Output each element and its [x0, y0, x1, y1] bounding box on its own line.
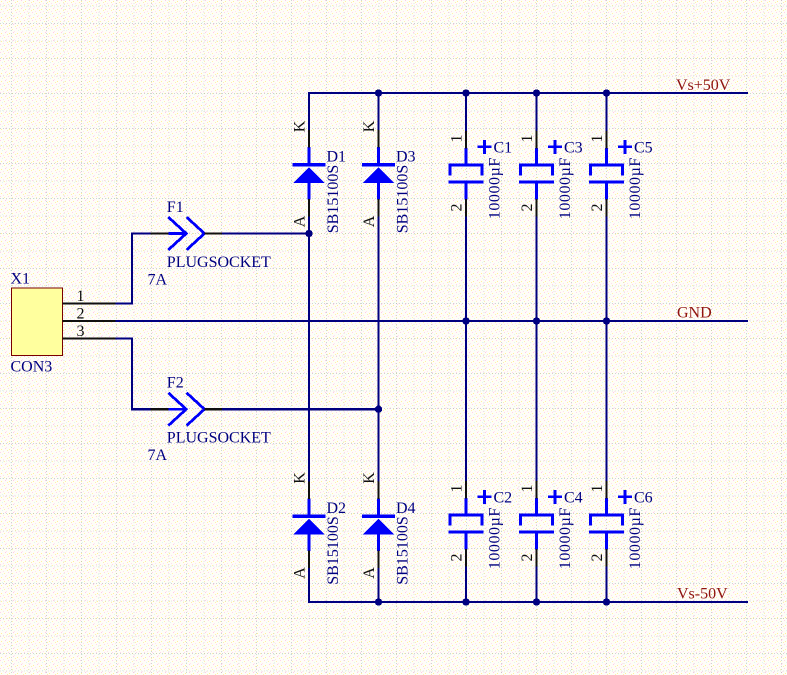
C1 polarity mark +: [478, 140, 492, 154]
polarized capacitor C2 (10000µF): [449, 498, 484, 549]
polarized capacitor C4 (10000µF): [519, 498, 554, 549]
junction GND / C1-C2: [462, 317, 469, 324]
junction top rail / C3: [533, 89, 540, 96]
C6 pin 1 lead: [605, 481, 607, 498]
D4 cathode pin (K): [377, 482, 379, 499]
C3 polarity mark +: [548, 140, 562, 154]
X1 pin 3: [63, 337, 116, 339]
svg-text:3: 3: [77, 323, 85, 340]
junction F1 / D1-D2 column: [305, 230, 312, 237]
svg-text:1: 1: [589, 485, 606, 493]
wire: pin1 to F1 (horizontal + vertical riser): [116, 232, 151, 304]
junction bottom rail / D4: [375, 598, 382, 605]
C5 pin 2 lead: [605, 199, 607, 217]
wire: Vs+50V top rail: [308, 92, 748, 94]
svg-text:10000µF: 10000µF: [487, 157, 504, 219]
C4 polarity mark +: [548, 490, 562, 504]
svg-text:PLUGSOCKET: PLUGSOCKET: [167, 254, 271, 271]
F1 pin 2 lead: [204, 232, 222, 234]
svg-text:7A: 7A: [148, 447, 168, 464]
svg-text:D4: D4: [396, 500, 416, 517]
polarized capacitor C5 (10000µF): [589, 148, 624, 199]
svg-text:D3: D3: [396, 149, 416, 166]
wire: GND net from pin2 to right edge: [116, 320, 748, 322]
F2 pin 2 lead: [204, 408, 222, 410]
svg-text:A: A: [361, 215, 378, 227]
svg-text:CON3: CON3: [11, 359, 53, 376]
fuse F2: [168, 393, 204, 426]
wire: Vs-50V bottom rail: [308, 601, 748, 603]
svg-text:2: 2: [449, 204, 466, 212]
junction GND / C3-C4: [533, 317, 540, 324]
C2 polarity mark +: [478, 490, 492, 504]
svg-text:C6: C6: [634, 489, 653, 506]
D2 anode pin (A): [308, 551, 310, 568]
junction GND / C5-C6: [603, 317, 610, 324]
wire: D1/D2 column segments: [308, 92, 310, 603]
svg-text:C4: C4: [564, 489, 583, 506]
svg-text:1: 1: [589, 135, 606, 143]
C5 pin 1 lead: [605, 131, 607, 148]
C6 polarity mark +: [618, 490, 632, 504]
svg-text:2: 2: [449, 554, 466, 562]
svg-text:PLUGSOCKET: PLUGSOCKET: [167, 430, 271, 447]
wire: pin3 to F2 (horizontal + vertical drop): [116, 337, 151, 410]
C6 pin 2 lead: [605, 549, 607, 567]
junction bottom rail / C6: [603, 598, 610, 605]
svg-text:Vs-50V: Vs-50V: [677, 586, 728, 603]
svg-text:10000µF: 10000µF: [487, 507, 504, 569]
svg-text:SB15100S: SB15100S: [325, 165, 342, 233]
wire: F1 output to D1/D2 column: [222, 232, 310, 234]
D1 anode pin (A): [308, 199, 310, 216]
X1 pin 1: [63, 302, 116, 304]
svg-text:C1: C1: [494, 139, 513, 156]
diode D1 (SB15100S): [293, 147, 326, 199]
wire: capacitor column segments at x=466: [465, 92, 467, 603]
fuse F1: [168, 217, 204, 250]
svg-text:C5: C5: [634, 139, 653, 156]
X1 pin 2: [63, 320, 116, 322]
junction top rail / C1: [462, 89, 469, 96]
svg-text:K: K: [292, 472, 309, 484]
svg-text:10000µF: 10000µF: [627, 507, 644, 569]
polarized capacitor C1 (10000µF): [449, 148, 484, 199]
svg-text:D2: D2: [327, 500, 347, 517]
svg-text:SB15100S: SB15100S: [395, 516, 412, 584]
svg-text:2: 2: [589, 204, 606, 212]
svg-text:F2: F2: [167, 375, 184, 392]
svg-text:A: A: [292, 215, 309, 227]
svg-text:K: K: [361, 120, 378, 132]
connector X1 (CON3): [12, 288, 63, 356]
diode D3 (SB15100S): [362, 147, 395, 199]
D3 cathode pin (K): [377, 130, 379, 147]
F1 pin 1 lead: [151, 232, 169, 234]
svg-text:7A: 7A: [148, 272, 168, 289]
svg-text:1: 1: [519, 135, 536, 143]
D2 cathode pin (K): [308, 482, 310, 499]
C3 pin 1 lead: [535, 131, 537, 148]
C4 pin 2 lead: [535, 549, 537, 567]
D1 cathode pin (K): [308, 130, 310, 147]
svg-text:10000µF: 10000µF: [557, 157, 574, 219]
svg-text:SB15100S: SB15100S: [395, 165, 412, 233]
svg-text:X1: X1: [11, 271, 31, 288]
svg-text:K: K: [361, 472, 378, 484]
svg-text:F1: F1: [167, 199, 184, 216]
svg-text:K: K: [292, 120, 309, 132]
wire: D3/D4 column segments: [377, 92, 379, 603]
svg-text:2: 2: [589, 554, 606, 562]
svg-text:A: A: [361, 567, 378, 579]
C2 pin 2 lead: [465, 549, 467, 567]
svg-text:1: 1: [449, 485, 466, 493]
svg-text:A: A: [292, 567, 309, 579]
junction bottom rail / C4: [533, 598, 540, 605]
C1 pin 2 lead: [465, 199, 467, 217]
svg-text:D1: D1: [327, 149, 347, 166]
svg-text:C2: C2: [494, 489, 513, 506]
wire: F2 output to D3/D4 column: [222, 408, 380, 410]
polarized capacitor C6 (10000µF): [589, 498, 624, 549]
svg-text:1: 1: [77, 288, 85, 305]
svg-text:Vs+50V: Vs+50V: [676, 77, 731, 94]
svg-text:2: 2: [519, 204, 536, 212]
C5 polarity mark +: [618, 140, 632, 154]
polarized capacitor C3 (10000µF): [519, 148, 554, 199]
svg-text:10000µF: 10000µF: [627, 157, 644, 219]
C1 pin 1 lead: [465, 131, 467, 148]
junction top rail / D3: [375, 89, 382, 96]
F2 pin 1 lead: [151, 408, 169, 410]
wire: capacitor column segments at x=536.5: [535, 92, 537, 603]
C4 pin 1 lead: [535, 481, 537, 498]
svg-text:SB15100S: SB15100S: [325, 516, 342, 584]
diode D2 (SB15100S): [293, 499, 326, 551]
junction top rail / C5: [603, 89, 610, 96]
C2 pin 1 lead: [465, 481, 467, 498]
D3 anode pin (A): [377, 199, 379, 216]
wire: capacitor column segments at x=606.5: [605, 92, 607, 603]
junction F2 / D3-D4 column: [375, 406, 382, 413]
svg-text:1: 1: [449, 135, 466, 143]
diode D4 (SB15100S): [362, 499, 395, 551]
D4 anode pin (A): [377, 551, 379, 568]
svg-text:GND: GND: [677, 305, 712, 322]
junction bottom rail / C2: [462, 598, 469, 605]
svg-text:2: 2: [77, 306, 85, 323]
svg-text:10000µF: 10000µF: [557, 507, 574, 569]
svg-text:C3: C3: [564, 139, 583, 156]
svg-text:1: 1: [519, 485, 536, 493]
svg-text:2: 2: [519, 554, 536, 562]
C3 pin 2 lead: [535, 199, 537, 217]
